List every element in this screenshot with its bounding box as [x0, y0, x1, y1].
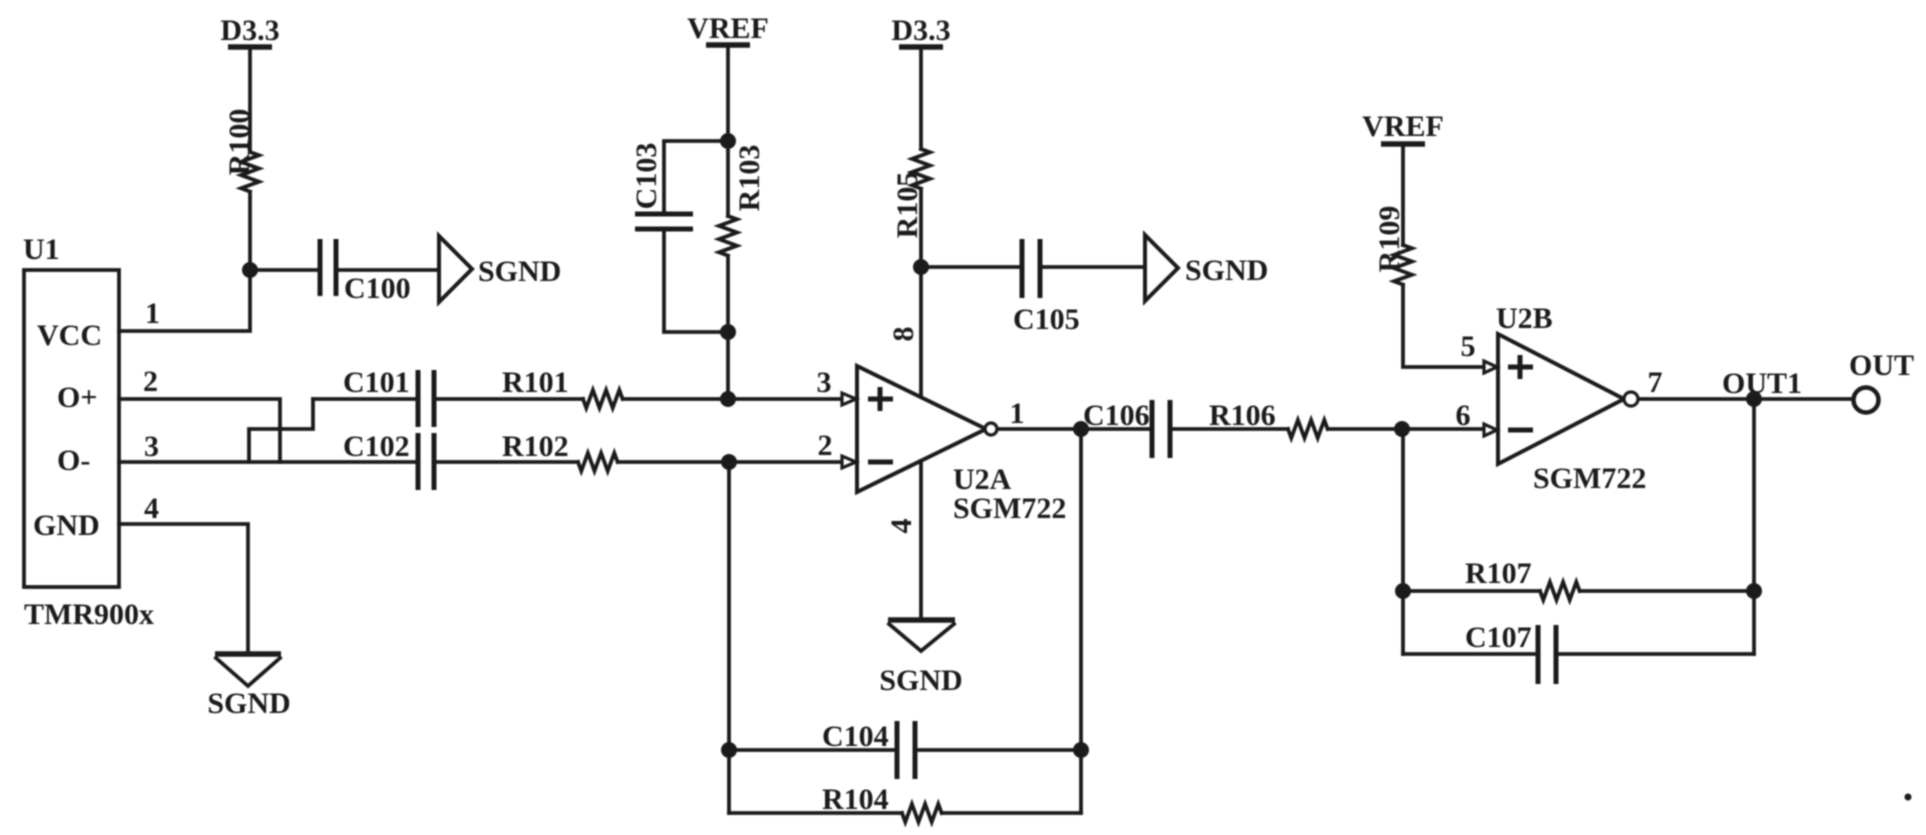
svg-text:6: 6 — [1456, 399, 1471, 432]
svg-text:R100: R100 — [223, 109, 256, 176]
svg-text:1: 1 — [1010, 397, 1025, 430]
svg-text:R105: R105 — [891, 172, 924, 239]
svg-text:O+: O+ — [57, 381, 97, 414]
svg-text:VREF: VREF — [687, 12, 769, 45]
svg-text:TMR900x: TMR900x — [24, 598, 154, 631]
svg-text:SGND: SGND — [1185, 254, 1268, 287]
svg-text:5: 5 — [1461, 330, 1476, 363]
svg-text:4: 4 — [885, 519, 918, 534]
svg-text:4: 4 — [144, 492, 159, 525]
svg-text:C104: C104 — [822, 720, 889, 753]
svg-text:SGM722: SGM722 — [953, 492, 1066, 525]
svg-text:C100: C100 — [344, 272, 411, 305]
svg-text:R109: R109 — [1373, 206, 1406, 273]
svg-text:2: 2 — [818, 429, 833, 462]
svg-text:SGM722: SGM722 — [1533, 462, 1646, 495]
svg-text:R104: R104 — [822, 783, 889, 816]
svg-text:R106: R106 — [1209, 399, 1276, 432]
svg-text:D3.3: D3.3 — [220, 14, 279, 47]
svg-text:D3.3: D3.3 — [891, 14, 950, 47]
svg-text:OUT1: OUT1 — [1722, 367, 1802, 400]
svg-text:C103: C103 — [630, 143, 663, 210]
svg-text:R101: R101 — [502, 366, 569, 399]
svg-text:SGND: SGND — [478, 255, 561, 288]
svg-text:SGND: SGND — [879, 664, 962, 697]
svg-text:OUT: OUT — [1849, 349, 1914, 382]
svg-text:2: 2 — [143, 365, 158, 398]
svg-text:U2B: U2B — [1496, 302, 1553, 335]
svg-text:C106: C106 — [1083, 399, 1150, 432]
svg-text:SGND: SGND — [207, 687, 290, 720]
svg-text:3: 3 — [144, 430, 159, 463]
svg-text:U1: U1 — [23, 233, 60, 266]
svg-text:3: 3 — [817, 366, 832, 399]
svg-text:VCC: VCC — [37, 319, 102, 352]
svg-text:R107: R107 — [1465, 557, 1532, 590]
svg-text:GND: GND — [33, 509, 100, 542]
svg-text:7: 7 — [1648, 366, 1663, 399]
svg-text:C105: C105 — [1013, 303, 1080, 336]
svg-text:R103: R103 — [733, 145, 766, 212]
svg-text:O-: O- — [57, 444, 90, 477]
svg-text:1: 1 — [145, 297, 160, 330]
svg-text:C107: C107 — [1465, 621, 1532, 654]
svg-text:8: 8 — [887, 327, 920, 342]
svg-text:VREF: VREF — [1362, 110, 1444, 143]
svg-text:C102: C102 — [343, 430, 410, 463]
svg-text:C101: C101 — [343, 366, 410, 399]
svg-text:R102: R102 — [502, 430, 569, 463]
